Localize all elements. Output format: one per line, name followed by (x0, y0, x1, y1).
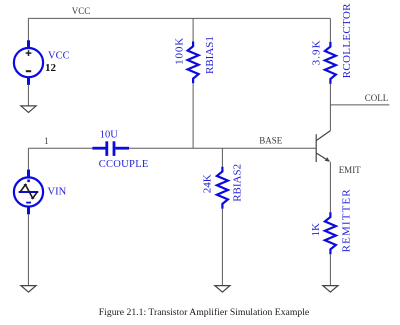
wire drop to RBIAS1 (192, 18, 194, 41)
wire drop to RBIAS2 (221, 148, 223, 167)
ground (below VCC) (21, 106, 36, 113)
svg-text:RBIAS2: RBIAS2 (232, 164, 244, 202)
svg-text:CCOUPLE: CCOUPLE (99, 159, 149, 170)
node COLL label (365, 93, 389, 103)
svg-text:3.9K: 3.9K (311, 39, 323, 65)
wire node1 corner down to VIN (27, 148, 29, 169)
wire COLL stub (330, 104, 389, 106)
wire RBIAS2 to ground (221, 209, 223, 285)
value 10U (100, 129, 119, 140)
svg-text:Figure 21.1: Transistor Amplif: Figure 21.1: Transistor Amplifier Simula… (99, 307, 309, 318)
node 1 label (44, 136, 49, 146)
resistor RBIAS1 (188, 42, 199, 84)
resistor RCOLLECTOR (325, 42, 336, 84)
svg-text:RBIAS1: RBIAS1 (204, 36, 216, 74)
svg-text:VCC: VCC (48, 51, 70, 62)
svg-text:VCC: VCC (72, 6, 91, 16)
svg-text:12: 12 (45, 62, 57, 74)
capacitor CCOUPLE (92, 141, 129, 156)
wire from top rail down to VCC source (27, 18, 29, 40)
wire drop to RCOLLECTOR (329, 18, 331, 42)
caption (99, 307, 309, 318)
wire capacitor to transistor base (129, 147, 316, 149)
value 3.9K (311, 39, 323, 65)
label RBIAS1 (204, 36, 216, 74)
svg-text:COLL: COLL (365, 93, 389, 103)
svg-text:VIN: VIN (48, 187, 67, 198)
label REMITTER (340, 188, 352, 252)
resistor RBIAS2 (217, 167, 228, 209)
svg-text:1K: 1K (310, 223, 322, 237)
wire REMITTER to ground (329, 254, 331, 285)
svg-text:REMITTER: REMITTER (340, 188, 352, 252)
label RCOLLECTOR (341, 3, 353, 78)
wire top rail VCC net (28, 17, 330, 19)
value 1K (310, 223, 322, 237)
ground (below VIN) (21, 286, 36, 293)
label RBIAS2 (232, 164, 244, 202)
wire emitter down (329, 162, 331, 212)
wire RCOLLECTOR to collector (329, 84, 331, 131)
wire VCC source to ground (27, 85, 29, 106)
value 24K (202, 174, 214, 193)
ground (below REMITTER) (323, 286, 338, 293)
label VIN (48, 187, 67, 198)
voltage source VIN (14, 170, 43, 215)
wire VIN to ground (27, 214, 29, 285)
node EMIT label (339, 165, 361, 175)
voltage source VCC (14, 40, 43, 85)
transistor Q1 (316, 131, 330, 163)
svg-text:EMIT: EMIT (339, 165, 361, 175)
value 12 (45, 62, 57, 74)
resistor REMITTER (325, 212, 336, 254)
wire RBIAS1 to base rail (192, 83, 194, 148)
node BASE label (259, 136, 283, 146)
svg-text:1: 1 (44, 136, 49, 146)
label VCC (source name) (48, 51, 70, 62)
svg-text:100K: 100K (174, 37, 186, 65)
svg-text:BASE: BASE (259, 136, 283, 146)
node VCC label (72, 6, 91, 16)
ground (below RBIAS2) (215, 286, 230, 293)
svg-text:RCOLLECTOR: RCOLLECTOR (341, 3, 353, 78)
wire node1 horizontal to capacitor (28, 147, 92, 149)
value 100K (174, 37, 186, 65)
label CCOUPLE (99, 159, 149, 170)
svg-text:10U: 10U (100, 129, 119, 140)
svg-text:24K: 24K (202, 174, 214, 193)
